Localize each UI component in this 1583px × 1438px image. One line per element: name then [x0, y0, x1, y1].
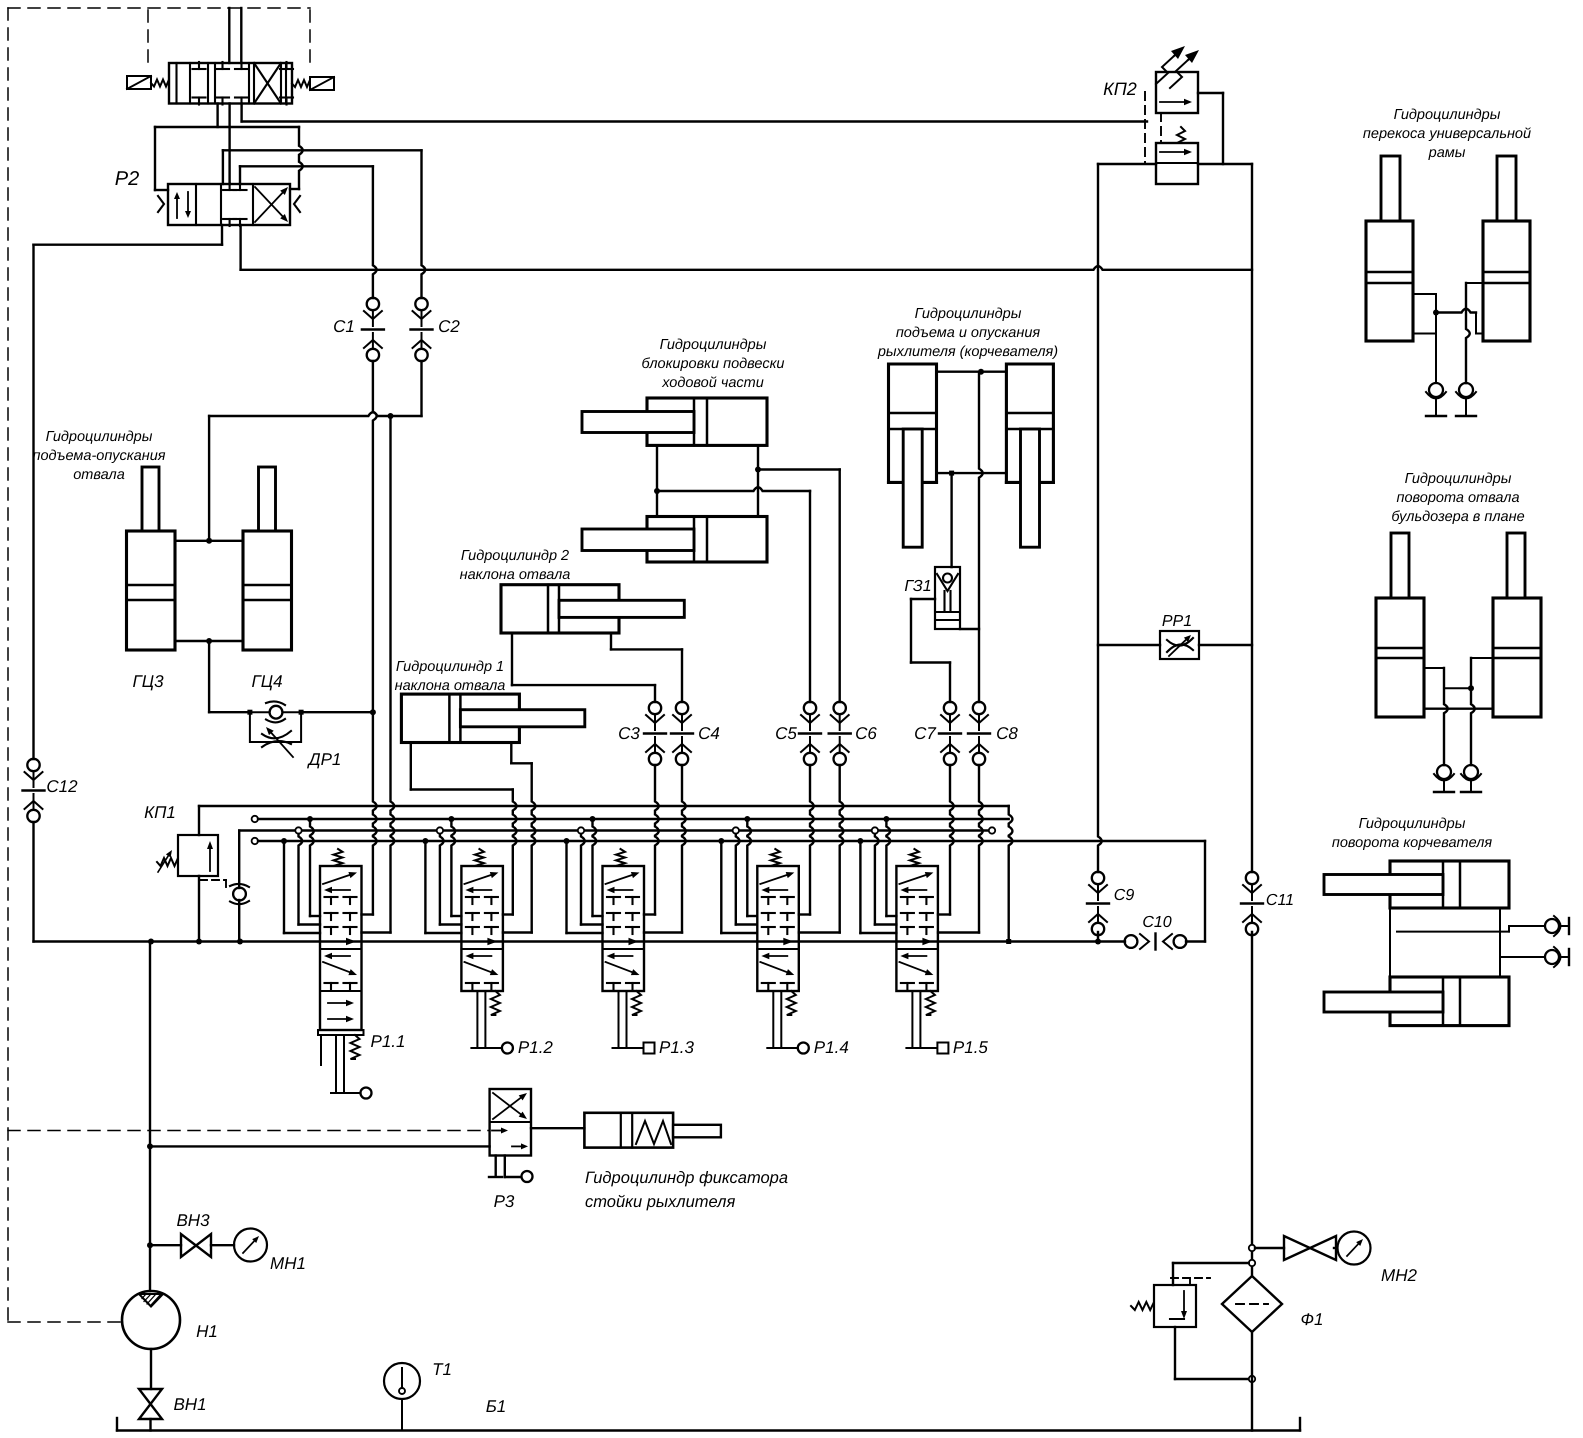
wire KP1 pilot dashed [200, 880, 226, 888]
check coupling C8 [938, 702, 990, 933]
wire P3 to cylinder [531, 1127, 584, 1129]
label P3 [494, 1192, 515, 1211]
wire bus4 riser Р1.1 [281, 838, 320, 933]
svg-text:наклона отвала: наклона отвала [395, 678, 506, 694]
check coupling C9 [1087, 872, 1109, 935]
wire filter to tank [1251, 1332, 1253, 1431]
wire V1 left port down [216, 104, 218, 128]
label GTs4 [251, 672, 282, 691]
svg-text:блокировки подвески: блокировки подвески [642, 356, 785, 372]
wire swing cross link [1424, 658, 1493, 765]
coupling rooter 1 [1545, 916, 1569, 936]
gauge MN2 [1338, 1232, 1371, 1265]
wire bus1 drop right [1006, 806, 1012, 944]
wire to P2 left side [155, 127, 168, 190]
wire ripper top link [937, 369, 1007, 375]
svg-text:Гидроцилиндры: Гидроцилиндры [1359, 816, 1466, 832]
wire GTs bottom to DR1 [209, 641, 250, 712]
wire KP1 to bus [198, 876, 200, 942]
svg-text:наклона отвала: наклона отвала [460, 567, 571, 583]
wire DR1 to riser [301, 711, 373, 713]
wire KP2 pilot dashed [1145, 92, 1161, 164]
wire KP2 right link [1198, 93, 1223, 164]
wire cyl1 rod to P12 lower [503, 743, 536, 933]
label blade lift cylinders [32, 429, 165, 483]
coupling swing right [1461, 765, 1481, 792]
svg-text:бульдозера в плане: бульдозера в плане [1391, 509, 1524, 525]
svg-text:ГЗ1: ГЗ1 [904, 578, 931, 595]
wire bus4 riser Р1.5 [857, 838, 896, 933]
svg-text:Р1.3: Р1.3 [659, 1038, 695, 1057]
svg-text:Гидроцилиндр 1: Гидроцилиндр 1 [396, 659, 504, 675]
pilot valve V1 body [169, 62, 293, 105]
svg-text:ВН1: ВН1 [173, 1395, 206, 1414]
directional valve Р1.1 [318, 849, 372, 1099]
label Р1.2 [518, 1038, 554, 1057]
rooter cylinder bottom [1324, 977, 1509, 1026]
wire susp to C5 [657, 487, 810, 702]
pilot valve P3 [490, 1089, 531, 1156]
thermometer T1 [384, 1363, 420, 1431]
wire GTs top to y416 [208, 416, 210, 541]
svg-text:КП2: КП2 [1103, 79, 1137, 99]
wire susp left link [654, 445, 660, 516]
label Р1.3 [659, 1038, 695, 1057]
label ripper cylinders [877, 306, 1058, 360]
svg-text:Гидроцилиндры: Гидроцилиндры [1405, 471, 1512, 487]
tilt cylinder 1 [401, 694, 584, 742]
wire right vertical A [1098, 164, 1102, 942]
wire pump to VN1 [150, 1349, 152, 1389]
throttle PP1 [1160, 631, 1199, 659]
wire pump riser [147, 942, 153, 1292]
svg-text:Гидроцилиндры: Гидроцилиндры [1394, 107, 1501, 123]
svg-text:подъема и опускания: подъема и опускания [896, 325, 1041, 341]
svg-text:Гидроцилиндры: Гидроцилиндры [660, 337, 767, 353]
tank B1 line [117, 1418, 1300, 1431]
wire cylinder line y416 [209, 412, 421, 419]
check coupling C6 [799, 702, 851, 933]
svg-text:Р1.2: Р1.2 [518, 1038, 554, 1057]
svg-text:рамы: рамы [1428, 145, 1466, 161]
check coupling C3 [644, 702, 666, 915]
wire V1 right port to KP2 pilot [242, 104, 1147, 122]
wire PP1 line [1098, 644, 1252, 646]
label C9 [1114, 887, 1135, 904]
directional valve Р1.3 [603, 849, 655, 1054]
suspension cylinder lower [582, 517, 767, 563]
wire GTs bottom link [175, 638, 243, 644]
wire bus3 riser Р1.5 [872, 827, 897, 924]
label tilt cylinder 1 [395, 659, 506, 694]
check coupling C4 [644, 702, 693, 933]
wire P2 port to C2 [223, 150, 425, 298]
relief valve KP2 lower [1156, 127, 1198, 184]
wire C1 riser [362, 166, 377, 914]
wire left line down to bus [32, 245, 34, 942]
hydraulic lock GZ1 [935, 567, 960, 629]
svg-text:РР1: РР1 [1162, 613, 1192, 630]
label C6 [855, 724, 877, 743]
wire bus4 riser Р1.4 [718, 838, 757, 933]
wire cyl1 to P12 [411, 743, 517, 915]
swing cylinder right [1493, 533, 1541, 717]
wire bypass branch [1173, 1260, 1255, 1285]
svg-text:С2: С2 [438, 317, 460, 336]
ripper cylinder left [889, 364, 937, 547]
label PP1 [1162, 613, 1192, 630]
wire GTs top link [175, 538, 243, 544]
solenoid left of V1 [127, 76, 169, 89]
check coupling C2 [411, 298, 433, 361]
label Р1.1 [371, 1032, 406, 1051]
svg-text:С1: С1 [333, 317, 355, 336]
wire bypass return [1175, 1327, 1255, 1382]
suspension cylinder upper [582, 398, 767, 445]
filter F1 [1222, 1276, 1282, 1332]
svg-text:поворота отвала: поворота отвала [1396, 490, 1519, 506]
relief valve KP1 [157, 835, 218, 876]
wire bus3 riser Р1.4 [733, 827, 758, 924]
wire check to bus [238, 900, 240, 942]
check valve at KP1 [230, 884, 249, 904]
svg-text:Гидроцилиндры: Гидроцилиндры [915, 306, 1022, 322]
pump N1 [122, 1291, 180, 1349]
svg-text:стойки рыхлителя: стойки рыхлителя [585, 1193, 735, 1211]
directional valve Р1.5 [896, 849, 948, 1054]
label P2 [115, 168, 139, 190]
svg-text:С7: С7 [914, 724, 936, 743]
svg-text:Ф1: Ф1 [1301, 1310, 1324, 1329]
svg-text:подъема-опускания: подъема-опускания [32, 448, 165, 464]
label C7 [914, 724, 936, 743]
svg-text:поворота корчевателя: поворота корчевателя [1332, 835, 1493, 851]
svg-text:КП1: КП1 [144, 803, 176, 822]
label fixator cylinder [585, 1169, 788, 1211]
wire MN2 branch [1249, 1245, 1284, 1251]
svg-text:Р2: Р2 [115, 168, 139, 190]
valve VN1 [139, 1389, 162, 1431]
wire bypass pilot dashed [1171, 1278, 1210, 1285]
skew cylinder right [1483, 156, 1530, 341]
solenoid right of V1 [292, 77, 334, 90]
label C11 [1266, 892, 1294, 909]
svg-text:С3: С3 [618, 724, 640, 743]
wire bus4 [252, 838, 1205, 844]
gauge MN1 [234, 1229, 267, 1262]
label T1 [432, 1360, 452, 1379]
wire cyl2 to C3 [512, 633, 655, 702]
label Р1.4 [814, 1038, 849, 1057]
wire bus3 [239, 827, 995, 888]
label C12 [46, 777, 78, 796]
label skew cylinders [1363, 107, 1531, 161]
wire riser to P11 lower [362, 416, 395, 933]
wire ripper top to C8 [979, 372, 983, 702]
label KP1 [144, 803, 176, 822]
label DR1 [307, 750, 342, 769]
wire ripper bottom to GZ1 [950, 473, 952, 567]
label C10 [1142, 914, 1171, 931]
check coupling C11 [1241, 872, 1263, 935]
rooter cylinder top [1324, 861, 1509, 908]
wire P2 port to C1 [240, 166, 373, 184]
cylinder GTs3 [127, 467, 176, 650]
ripper cylinder right [1006, 364, 1053, 547]
coupling skew left [1426, 383, 1446, 416]
wire P3 stubs [489, 1156, 533, 1183]
svg-text:Р1.5: Р1.5 [953, 1038, 989, 1057]
wire cyl2 rod to C4 [611, 633, 682, 702]
wire dashed enclosure boundary [8, 8, 490, 1322]
svg-text:Гидроцилиндры: Гидроцилиндры [46, 429, 153, 445]
filter bypass valve [1131, 1285, 1196, 1327]
label tilt cylinder 2 [460, 548, 571, 583]
svg-text:С5: С5 [775, 724, 797, 743]
svg-text:С12: С12 [46, 777, 78, 796]
svg-text:ДР1: ДР1 [307, 750, 342, 769]
svg-text:С11: С11 [1266, 892, 1294, 909]
svg-text:ходовой части: ходовой части [661, 375, 764, 391]
svg-text:ГЦ4: ГЦ4 [251, 672, 282, 691]
wire bus2 [252, 816, 1009, 822]
svg-text:Р1.1: Р1.1 [371, 1032, 406, 1051]
coupling rooter 2 [1545, 947, 1569, 967]
label N1 [196, 1322, 218, 1341]
svg-text:С4: С4 [698, 724, 720, 743]
label rooter cylinders [1332, 816, 1493, 851]
wire P2 to left line [34, 225, 223, 245]
label C3 [618, 724, 640, 743]
svg-text:Н1: Н1 [196, 1322, 218, 1341]
relief valve KP2 upper [1156, 46, 1199, 113]
svg-text:отвала: отвала [73, 467, 125, 483]
valve at MN2 [1284, 1236, 1336, 1260]
svg-text:Р3: Р3 [494, 1192, 515, 1211]
directional valve Р1.2 [461, 849, 513, 1054]
svg-text:МН2: МН2 [1381, 1266, 1417, 1285]
label GTs3 [132, 672, 164, 691]
fixator cylinder [584, 1113, 720, 1148]
svg-text:ВН3: ВН3 [176, 1211, 210, 1230]
label C2 [438, 317, 460, 336]
svg-text:С9: С9 [1114, 887, 1135, 904]
check coupling C5 [799, 702, 821, 915]
wire supply to P3 [147, 1143, 490, 1149]
label KP2 [1103, 79, 1137, 99]
wire bus3 riser Р1.3 [578, 827, 603, 924]
label C4 [698, 724, 720, 743]
svg-text:Гидроцилиндр фиксатора: Гидроцилиндр фиксатора [585, 1169, 788, 1187]
label MN2 [1381, 1266, 1417, 1285]
wire ripper bottom link [937, 471, 1007, 476]
wire GZ1 to C7 [911, 599, 950, 702]
wire susp to C6 [758, 470, 840, 703]
svg-text:Гидроцилиндр 2: Гидроцилиндр 2 [461, 548, 569, 564]
wire bus4 riser Р1.3 [564, 838, 603, 933]
wire skew cross link [1413, 283, 1483, 383]
wire susp right link [755, 445, 761, 516]
label C8 [996, 724, 1018, 743]
svg-text:перекоса универсальной: перекоса универсальной [1363, 126, 1531, 142]
svg-text:С10: С10 [1142, 914, 1171, 931]
skew cylinder left [1366, 156, 1413, 341]
check coupling C10 [1125, 934, 1187, 950]
wire GZ1 to C8 line [960, 628, 979, 630]
cylinder GTs4 [243, 467, 292, 650]
label GZ1 [904, 578, 931, 595]
wire KP2 manifold [1098, 163, 1252, 165]
check coupling C1 [362, 298, 384, 361]
label MN1 [270, 1254, 306, 1273]
svg-text:ГЦ3: ГЦ3 [132, 672, 164, 691]
coupling swing left [1434, 765, 1454, 792]
wire to P2 right side [290, 127, 303, 189]
label suspension cylinders [642, 337, 785, 391]
wire C2 down [420, 361, 422, 416]
label VN1 [173, 1395, 206, 1414]
valve VN3 [150, 1234, 234, 1257]
wire P2 to long line y270 [241, 225, 1252, 270]
label F1 [1301, 1310, 1324, 1329]
label C1 [333, 317, 355, 336]
wire bus4 drop right [1204, 841, 1206, 942]
wire rooter links [1390, 908, 1545, 977]
wire bus2 riser Р1.1 [307, 816, 320, 916]
svg-text:рыхлителя (корчевателя): рыхлителя (корчевателя) [877, 344, 1058, 360]
svg-text:Р1.4: Р1.4 [814, 1038, 849, 1057]
wire bus3 riser Р1.2 [437, 827, 462, 924]
wire bus2 riser Р1.4 [744, 816, 757, 916]
label C5 [775, 724, 797, 743]
throttle check valve DR1 [247, 701, 303, 757]
wire right vertical B [1251, 164, 1253, 1276]
wire main pressure bus [34, 939, 1206, 945]
label VN3 [176, 1211, 210, 1230]
wire bus1 [199, 806, 1009, 835]
svg-text:МН1: МН1 [270, 1254, 306, 1273]
check coupling C12 [23, 759, 45, 822]
main directional valve P2 [158, 183, 300, 226]
coupling skew right [1456, 383, 1476, 416]
wire bus4 riser Р1.2 [422, 838, 461, 933]
svg-text:Т1: Т1 [432, 1360, 452, 1379]
label B1 [486, 1397, 507, 1416]
swing cylinder left [1376, 533, 1424, 717]
svg-text:С6: С6 [855, 724, 877, 743]
label Р1.5 [953, 1038, 989, 1057]
wire bus3 riser Р1.1 [295, 827, 320, 924]
svg-text:С8: С8 [996, 724, 1018, 743]
label swing cylinders [1391, 471, 1524, 525]
wire bus2 riser Р1.3 [590, 816, 603, 916]
wire V1 center port to P2 [228, 104, 230, 185]
wire bus2 riser Р1.5 [883, 816, 896, 916]
svg-text:Б1: Б1 [486, 1397, 507, 1416]
wire V1 top ports [229, 8, 241, 63]
wire horizontal y127 [155, 126, 299, 128]
tilt cylinder 2 [501, 585, 684, 633]
check coupling C7 [938, 702, 961, 915]
wire bus2 riser Р1.2 [448, 816, 461, 916]
directional valve Р1.4 [757, 849, 809, 1054]
